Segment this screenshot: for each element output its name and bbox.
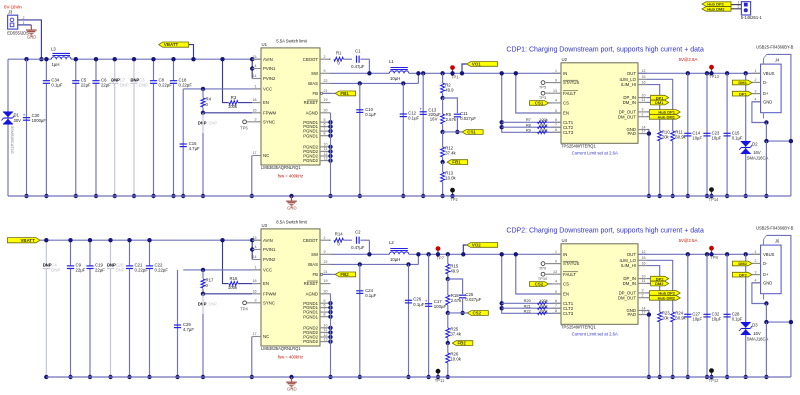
svg-text:FB1: FB1 — [452, 160, 461, 165]
ground at J3 — [26, 25, 37, 40]
testpoint TP7 — [436, 246, 445, 260]
resistor R7 — [502, 117, 561, 123]
wire EN riser — [514, 71, 561, 113]
TVS diode D2 — [739, 71, 768, 198]
svg-text:GND: GND — [27, 35, 37, 40]
svg-text:TPS2549IRTERQ1: TPS2549IRTERQ1 — [561, 325, 596, 330]
svg-text:20k: 20k — [662, 315, 670, 320]
svg-text:fsw = 400kHz: fsw = 400kHz — [278, 354, 303, 359]
testpoint TP8 — [709, 246, 718, 260]
wire CLT riser — [500, 71, 562, 132]
wire EN — [238, 102, 252, 104]
svg-text:PGND1: PGND1 — [303, 314, 318, 319]
svg-text:22: 22 — [324, 260, 328, 264]
svg-text:DNP: DNP — [107, 263, 116, 268]
svg-text:11: 11 — [642, 279, 646, 283]
svg-text:9: 9 — [324, 69, 326, 73]
svg-text:U1: U1 — [262, 42, 268, 47]
svg-text:1: 1 — [255, 85, 257, 89]
svg-text:CLT3: CLT3 — [563, 311, 574, 316]
svg-text:EN: EN — [263, 100, 269, 105]
svg-text:11: 11 — [324, 147, 328, 151]
svg-text:VCC: VCC — [263, 87, 272, 92]
svg-text:37.4k: 37.4k — [450, 331, 461, 336]
buck converter U1 — [261, 39, 320, 179]
svg-text:SW: SW — [311, 71, 319, 76]
resistor R21 — [502, 303, 561, 309]
capacitor C7 (DNP) — [111, 57, 129, 198]
svg-text:10µF: 10µF — [692, 316, 702, 321]
capacitor C30 (polarized) — [23, 57, 47, 198]
svg-text:0.1µF: 0.1µF — [413, 302, 424, 307]
svg-text:1: 1 — [755, 69, 757, 73]
svg-text:DM_IN: DM_IN — [623, 281, 636, 286]
net label CS2 at CS pin — [530, 282, 553, 287]
svg-text:CDP2: Charging Downstream port: CDP2: Charging Downstream port, supports… — [506, 228, 704, 235]
svg-text:12: 12 — [324, 333, 328, 337]
capacitor C26 — [405, 262, 425, 379]
wire EN riser — [514, 252, 561, 294]
red label 5V@2.5A — [679, 238, 698, 243]
capacitor C34 — [43, 57, 63, 198]
svg-text:10µH: 10µH — [390, 76, 400, 81]
svg-text:Hub DM2: Hub DM2 — [707, 7, 725, 12]
svg-text:12: 12 — [642, 250, 646, 254]
capacitor C20 (DNP) — [107, 238, 125, 379]
svg-text:10µH: 10µH — [390, 257, 400, 262]
svg-text:SYNC: SYNC — [263, 119, 275, 124]
wire PVIN drop — [250, 57, 254, 79]
svg-text:4: 4 — [255, 245, 257, 249]
svg-text:2: 2 — [755, 259, 757, 263]
svg-text:0.1µF: 0.1µF — [732, 135, 743, 140]
svg-text:15: 15 — [642, 256, 646, 260]
testpoint TP4 — [240, 301, 252, 312]
svg-text:5: 5 — [555, 109, 557, 113]
svg-text:DNP: DNP — [131, 77, 140, 82]
svg-text:20k: 20k — [662, 134, 670, 139]
net label VO2 — [461, 243, 497, 257]
svg-text:13: 13 — [553, 89, 557, 93]
svg-text:FPWM: FPWM — [263, 291, 277, 296]
svg-text:16V: 16V — [753, 331, 761, 336]
svg-text:R4: R4 — [206, 96, 212, 101]
net label DM2 — [647, 281, 669, 286]
svg-text:FB2: FB2 — [340, 272, 349, 277]
resistor R14 — [329, 232, 352, 247]
U1 left pins — [252, 55, 276, 158]
wire shield loop — [764, 235, 794, 377]
capacitor C13 (polarized) — [419, 71, 441, 198]
svg-text:TP6: TP6 — [240, 126, 248, 131]
svg-text:8: 8 — [555, 309, 557, 313]
net label Hub DM2 — [647, 295, 680, 300]
svg-text:J4: J4 — [775, 57, 780, 62]
svg-text:10: 10 — [324, 324, 328, 328]
capacitor C1 — [351, 49, 369, 74]
svg-text:GND: GND — [287, 206, 297, 211]
svg-text:DNP: DNP — [120, 82, 129, 87]
resistor R22 — [524, 308, 548, 314]
svg-text:+: + — [425, 298, 428, 303]
svg-text:J6: J6 — [775, 238, 780, 243]
svg-text:Current Limit set at 2.6A: Current Limit set at 2.6A — [572, 331, 618, 336]
resistor R3 — [228, 95, 238, 109]
svg-text:VO1: VO1 — [472, 62, 481, 67]
svg-text:3: 3 — [255, 298, 257, 302]
svg-text:PVIN1: PVIN1 — [263, 66, 276, 71]
wire VOUT rail — [409, 72, 561, 74]
net label DP2 — [732, 272, 752, 277]
wire VIN rail — [8, 58, 261, 60]
net label Hub DP2 — [647, 291, 680, 296]
svg-text:PAD: PAD — [627, 131, 636, 136]
svg-text:L3: L3 — [51, 47, 56, 52]
svg-text:13: 13 — [324, 337, 328, 341]
testpoint TP12 — [709, 368, 720, 383]
svg-text:1: 1 — [738, 1, 740, 5]
buck converter U3 — [261, 220, 320, 360]
svg-text:0.22µF: 0.22µF — [155, 268, 169, 273]
wire FPWM — [203, 293, 252, 295]
svg-text:D-: D- — [763, 261, 768, 266]
svg-text:9: 9 — [324, 250, 326, 254]
svg-text:1: 1 — [555, 250, 557, 254]
svg-text:+: + — [23, 112, 26, 117]
capacitor C5 — [72, 57, 91, 198]
svg-text:3: 3 — [642, 108, 644, 112]
svg-text:AVIN: AVIN — [263, 238, 273, 243]
svg-text:DM1: DM1 — [738, 80, 747, 85]
svg-text:PAD: PAD — [627, 312, 636, 317]
svg-text:TP13: TP13 — [709, 74, 720, 79]
USB receptacle J6 — [752, 226, 794, 294]
svg-text:100k: 100k — [539, 308, 547, 313]
svg-text:L2: L2 — [389, 240, 394, 245]
svg-text:0: 0 — [206, 102, 209, 107]
svg-text:16V: 16V — [753, 150, 761, 155]
net label CS1 — [462, 130, 483, 135]
svg-text:2: 2 — [755, 78, 757, 82]
wire FPWM — [203, 112, 252, 114]
svg-text:0: 0 — [206, 283, 209, 288]
svg-text:9: 9 — [555, 259, 557, 263]
resistor R8 — [502, 122, 561, 128]
svg-text:16: 16 — [253, 108, 257, 112]
svg-text:17: 17 — [253, 151, 257, 155]
net label Hub DP2 (header) — [702, 2, 741, 7]
net label CS1 at CS pin — [530, 101, 553, 106]
capacitor C32 — [703, 252, 721, 379]
svg-text:3: 3 — [755, 89, 757, 93]
svg-text:6: 6 — [324, 122, 326, 126]
connector 5-146261-1 — [738, 1, 763, 20]
svg-text:J3: J3 — [8, 10, 13, 15]
svg-text:EN: EN — [563, 292, 569, 297]
svg-text:CS: CS — [563, 282, 569, 287]
svg-text:C1: C1 — [355, 49, 361, 54]
capacitor C28 — [724, 252, 743, 379]
resistor R17 (DNP) — [198, 268, 218, 307]
svg-text:4: 4 — [755, 98, 757, 102]
testpoint TP1 — [450, 65, 459, 79]
svg-text:TP4: TP4 — [240, 307, 248, 312]
svg-text:12: 12 — [324, 152, 328, 156]
svg-text:LM53635AQRNLRQ1: LM53635AQRNLRQ1 — [261, 165, 301, 170]
svg-text:GND: GND — [763, 99, 772, 104]
svg-text:0.1µF: 0.1µF — [408, 116, 419, 121]
svg-text:TP2: TP2 — [450, 197, 458, 202]
svg-text:6: 6 — [555, 299, 557, 303]
svg-text:ILIM_LO: ILIM_LO — [620, 77, 637, 82]
svg-text:12: 12 — [642, 69, 646, 73]
svg-text:CS1: CS1 — [535, 101, 544, 106]
svg-text:5-146261-1: 5-146261-1 — [741, 15, 763, 20]
wire GND pin to shield — [752, 283, 769, 379]
resistor R2 — [440, 71, 454, 98]
svg-text:0.1µF: 0.1µF — [51, 82, 62, 87]
ground (top) — [286, 194, 297, 211]
svg-text:4: 4 — [755, 279, 757, 283]
svg-text:2: 2 — [324, 236, 326, 240]
testpoint TP13 — [709, 65, 720, 79]
svg-text:DM_OUT: DM_OUT — [618, 114, 637, 119]
U1 right pins — [303, 55, 331, 116]
svg-text:TP10: TP10 — [538, 276, 548, 281]
svg-text:0.027µF: 0.027µF — [460, 116, 476, 121]
resistor R20 — [502, 298, 561, 304]
svg-text:TP7: TP7 — [437, 255, 445, 260]
capacitor C15 — [724, 71, 743, 198]
svg-text:DM2: DM2 — [655, 281, 664, 286]
svg-text:0.1µF: 0.1µF — [365, 112, 376, 117]
red label 5V@2.5A — [679, 57, 698, 62]
U3 right pins — [303, 236, 331, 297]
svg-text:NC: NC — [263, 153, 269, 158]
svg-text:22µF: 22µF — [76, 268, 86, 273]
svg-text:SMAJ16CA: SMAJ16CA — [747, 337, 769, 342]
svg-text:CS2: CS2 — [535, 282, 544, 287]
svg-text:GND: GND — [287, 387, 297, 392]
wire GND rail (top) — [8, 195, 791, 197]
svg-text:6V-18Vin: 6V-18Vin — [4, 5, 22, 10]
svg-text:R9: R9 — [526, 127, 531, 132]
capacitor C14 — [684, 71, 702, 198]
svg-text:4: 4 — [555, 99, 557, 103]
svg-text:8: 8 — [324, 132, 326, 136]
testpoint TP11 — [435, 369, 445, 383]
svg-text:FAULT: FAULT — [563, 91, 576, 96]
svg-text:SMAJ16CA: SMAJ16CA — [747, 156, 769, 161]
resistor R12 — [441, 132, 457, 162]
red label 6V-18Vin — [4, 5, 22, 10]
svg-text:100k: 100k — [539, 127, 547, 132]
capacitor C12 — [400, 81, 420, 198]
svg-text:IN: IN — [563, 252, 567, 257]
svg-text:0.47µF: 0.47µF — [351, 64, 365, 69]
resistor R10 — [647, 85, 670, 199]
resistor R4 (DNP) — [198, 87, 218, 126]
svg-text:EN: EN — [263, 281, 269, 286]
svg-text:15: 15 — [253, 55, 257, 59]
svg-text:4: 4 — [255, 64, 257, 68]
svg-text:DNP: DNP — [111, 77, 120, 82]
svg-text:R14: R14 — [335, 232, 343, 237]
ground (bottom) — [286, 375, 297, 392]
svg-text:DNP: DNP — [198, 301, 207, 306]
svg-text:R17: R17 — [206, 277, 214, 282]
USB charge controller U4 — [561, 238, 638, 336]
svg-text:16: 16 — [642, 80, 646, 84]
svg-text:2: 2 — [642, 294, 644, 298]
svg-text:5.5A Switch limit: 5.5A Switch limit — [276, 39, 307, 44]
svg-text:19: 19 — [324, 98, 328, 102]
testpoint TP9 — [539, 262, 552, 271]
svg-text:VBUS: VBUS — [763, 252, 775, 257]
net label DM2 — [732, 261, 752, 266]
testpoint TP6 — [240, 120, 252, 131]
svg-text:0.1µF: 0.1µF — [365, 293, 376, 298]
svg-text:ILIM_LO: ILIM_LO — [620, 258, 637, 263]
svg-text:FB: FB — [313, 272, 319, 277]
resistor R26 — [446, 343, 462, 379]
svg-text:0: 0 — [338, 61, 341, 66]
resistor R9 — [526, 127, 548, 133]
svg-text:PVIN1: PVIN1 — [263, 247, 276, 252]
svg-text:DNP: DNP — [116, 268, 125, 273]
net label DM1 — [732, 80, 752, 85]
svg-text:DM2: DM2 — [738, 261, 747, 266]
svg-text:EN: EN — [563, 111, 569, 116]
svg-text:DP1: DP1 — [739, 91, 748, 96]
capacitor C24 — [356, 262, 376, 379]
svg-text:DNP: DNP — [209, 301, 218, 306]
svg-text:USB25-F04366BY-B: USB25-F04366BY-B — [756, 226, 794, 231]
svg-text:TPS2549IRTERQ1: TPS2549IRTERQ1 — [561, 144, 596, 149]
net label FB2 divider tap — [446, 341, 473, 346]
U3 left pins — [252, 236, 276, 339]
svg-text:Hub DM1: Hub DM1 — [658, 114, 676, 119]
resistor R24 — [647, 260, 687, 379]
svg-text:5SMB30CAT3G: 5SMB30CAT3G — [10, 126, 15, 154]
net label VBATT (bottom) — [8, 238, 41, 243]
inductor L3 — [51, 47, 71, 67]
svg-text:0.47µF: 0.47µF — [351, 245, 365, 250]
wire GND/PAD — [647, 311, 651, 380]
svg-text:10: 10 — [642, 93, 646, 97]
svg-text:37.4k: 37.4k — [445, 150, 456, 155]
net label DP1 — [732, 91, 752, 96]
svg-text:D2: D2 — [752, 141, 758, 146]
wire SW — [331, 71, 390, 75]
svg-text:1µH: 1µH — [52, 62, 60, 67]
svg-text:8: 8 — [324, 313, 326, 317]
wire BIAS — [331, 71, 421, 83]
svg-text:DM_IN: DM_IN — [623, 100, 636, 105]
net label DP1 — [647, 95, 669, 100]
svg-text:BIAS: BIAS — [308, 81, 318, 86]
inductor L1 — [389, 59, 409, 81]
svg-text:CS1: CS1 — [467, 130, 476, 135]
testpoint TP14 — [709, 187, 720, 202]
svg-text:0.22µF: 0.22µF — [179, 82, 193, 87]
svg-text:8.5A Switch limit: 8.5A Switch limit — [276, 220, 307, 225]
svg-text:+: + — [419, 107, 422, 112]
svg-text:CLT3: CLT3 — [563, 130, 574, 135]
svg-text:11: 11 — [642, 98, 646, 102]
svg-text:R3: R3 — [231, 95, 237, 100]
svg-text:R22: R22 — [524, 308, 531, 313]
wire BIAS — [331, 252, 421, 264]
resistor R1 — [329, 51, 352, 66]
svg-text:7: 7 — [555, 304, 557, 308]
svg-text:6: 6 — [324, 303, 326, 307]
svg-text:3: 3 — [255, 117, 257, 121]
svg-text:0.1µF: 0.1µF — [732, 316, 743, 321]
capacitor C2 — [351, 230, 369, 255]
capacitor C22 — [146, 238, 168, 379]
svg-text:1: 1 — [23, 21, 25, 25]
svg-text:R16: R16 — [230, 276, 238, 281]
svg-text:D+: D+ — [763, 91, 769, 96]
svg-text:OUT: OUT — [627, 71, 636, 76]
svg-text:0: 0 — [338, 242, 341, 247]
capacitor C3 (DNP) — [130, 57, 148, 198]
svg-text:FAULT: FAULT — [563, 272, 576, 277]
svg-text:2: 2 — [642, 113, 644, 117]
svg-text:PGND2: PGND2 — [303, 158, 318, 163]
svg-text:AGND: AGND — [306, 110, 318, 115]
U4 right pins — [618, 250, 647, 317]
svg-text:22µF: 22µF — [101, 82, 111, 87]
svg-text:2.67k: 2.67k — [446, 117, 457, 122]
net label DM1 — [647, 100, 669, 105]
svg-text:1: 1 — [555, 69, 557, 73]
svg-text:11: 11 — [324, 328, 328, 332]
wire DNP column — [201, 294, 205, 379]
svg-text:SYNC: SYNC — [263, 300, 275, 305]
svg-text:60.9k: 60.9k — [675, 134, 686, 139]
svg-text:18: 18 — [253, 98, 257, 102]
net label FB1 at FB pin — [320, 91, 356, 96]
svg-text:22: 22 — [324, 79, 328, 83]
wire shield loop — [764, 54, 794, 196]
svg-text:10.0k: 10.0k — [450, 356, 461, 361]
wire PVIN drop — [250, 238, 254, 260]
svg-text:FB2: FB2 — [458, 341, 467, 346]
svg-text:VBATT: VBATT — [20, 238, 35, 243]
svg-text:6: 6 — [555, 118, 557, 122]
svg-text:20: 20 — [324, 289, 328, 293]
svg-text:VBUS: VBUS — [763, 71, 775, 76]
svg-text:7: 7 — [324, 127, 326, 131]
svg-text:U3: U3 — [262, 223, 268, 228]
svg-text:CS: CS — [563, 101, 569, 106]
svg-text:5V@2.5A: 5V@2.5A — [679, 57, 698, 62]
capacitor C19 — [86, 238, 105, 379]
svg-text:7: 7 — [324, 308, 326, 312]
U3 PGND pins — [303, 299, 333, 344]
capacitor C10 — [356, 81, 376, 198]
svg-text:10µF: 10µF — [712, 135, 722, 140]
svg-text:FB: FB — [313, 91, 319, 96]
wire VBATT rail (bottom) — [40, 239, 261, 241]
svg-text:BIAS: BIAS — [308, 262, 318, 267]
svg-text:17: 17 — [642, 129, 646, 133]
svg-text:49.9: 49.9 — [445, 87, 454, 92]
svg-text:18: 18 — [253, 279, 257, 283]
svg-text:10: 10 — [642, 274, 646, 278]
